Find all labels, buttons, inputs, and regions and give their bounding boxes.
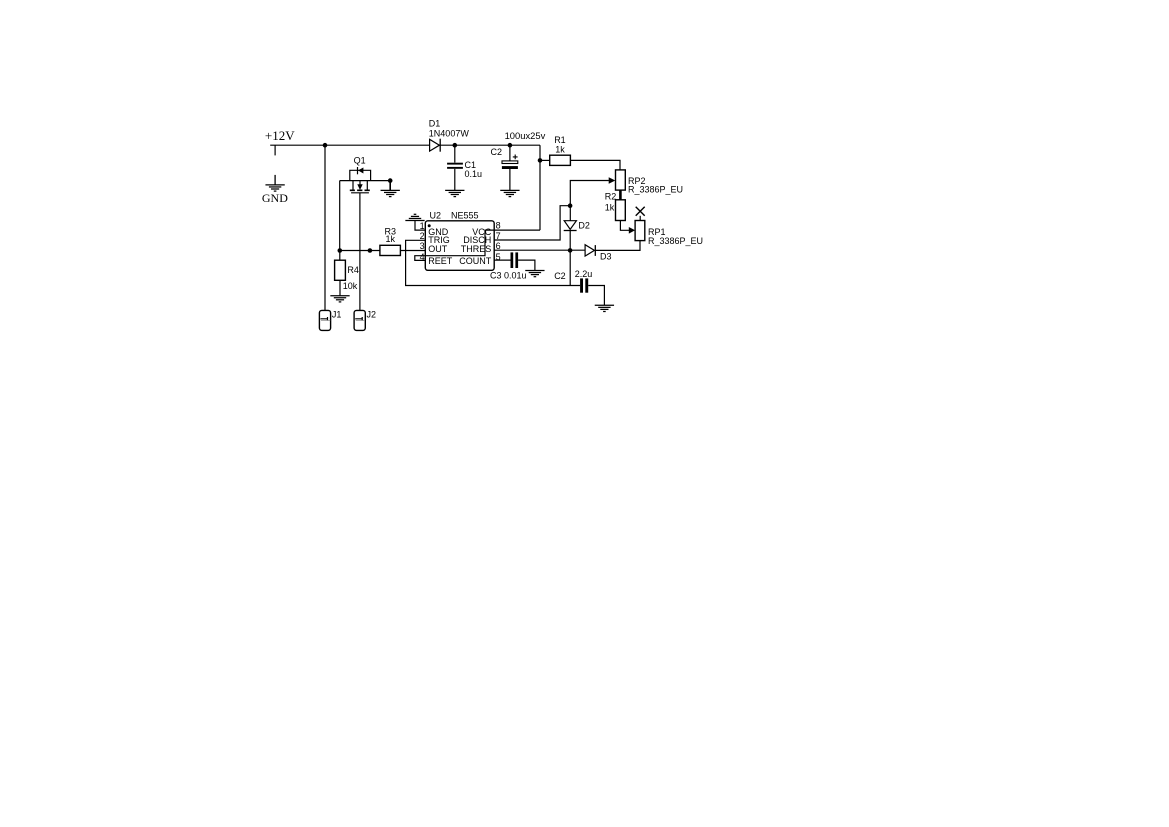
svg-text:D2: D2 (578, 221, 590, 231)
resistor R1 (550, 135, 571, 165)
svg-text:+12V: +12V (265, 128, 295, 143)
svg-text:OUT: OUT (428, 244, 448, 254)
wire Q1 source ground drop (389, 181, 391, 191)
svg-text:1k: 1k (555, 144, 565, 154)
wire D3 cathode to RP1 bottom (595, 241, 640, 251)
wire main +12V rail (270, 144, 540, 146)
connector J1 (319, 310, 341, 331)
svg-text:7: 7 (496, 231, 501, 241)
wire R1 to RP2 top (570, 160, 620, 170)
potentiometer RP1 (635, 221, 703, 246)
node junction R1 tap (538, 158, 543, 163)
connector J2 (354, 310, 376, 331)
resistor R4 (335, 260, 359, 291)
wire OUT pin3 to R3 (400, 250, 425, 252)
ground below R4 (330, 296, 349, 302)
svg-text:1N4007W: 1N4007W (429, 129, 470, 139)
wire rail to J1 (324, 145, 326, 310)
wire DISCH pin7 to junction (494, 206, 570, 240)
potentiometer RP2 (609, 170, 683, 195)
svg-text:10k: 10k (343, 281, 358, 291)
svg-text:0.1u: 0.1u (465, 169, 483, 179)
capacitor C2 100ux25v (polarized) (491, 130, 546, 190)
wire VCC pin8 to RESET pin4 (415, 230, 540, 260)
svg-text:2.2u: 2.2u (575, 269, 593, 279)
wire R4 to ground (339, 280, 341, 295)
resistor R3 (380, 226, 401, 255)
wire D2 cathode down to TRIG line (569, 231, 571, 286)
wire rail corner down to VCC (539, 145, 541, 230)
capacitor C3 0.01u (490, 252, 535, 280)
svg-text:U2: U2 (430, 210, 442, 220)
ground at C3 (525, 271, 544, 277)
svg-text:NE555: NE555 (451, 210, 479, 220)
svg-text:THRES: THRES (461, 244, 492, 254)
ground below C2 (500, 190, 519, 196)
node junction at +12V rail / J1 branch (323, 143, 328, 148)
svg-text:2: 2 (420, 231, 425, 241)
diode D3 (585, 245, 611, 262)
RP1 wiper arrow (629, 227, 635, 234)
wire Q1 drain down to OUT net (339, 181, 341, 251)
node junction rail / C2 (508, 143, 513, 148)
node junction on OUT net (368, 248, 373, 253)
ground below C2 2.2u (595, 305, 614, 311)
svg-text:COUNT: COUNT (459, 256, 491, 266)
wire R3 to OUT net junction (340, 250, 380, 252)
resistor R2 (605, 192, 626, 221)
svg-text:6: 6 (496, 241, 501, 251)
wire TRIG pin2 down and to C2 2.2u (406, 240, 580, 285)
svg-text:R4: R4 (347, 265, 359, 275)
svg-text:8: 8 (496, 220, 501, 230)
ground above U2 pin1 (inverted) (405, 214, 424, 220)
svg-text:R_3386P_EU: R_3386P_EU (628, 185, 683, 195)
wire to R1 (540, 159, 550, 161)
+12V pin stub (274, 145, 276, 155)
svg-text:Q1: Q1 (354, 155, 366, 165)
capacitor C1 (447, 145, 482, 190)
svg-text:R_3386P_EU: R_3386P_EU (648, 236, 703, 246)
diode D2 (564, 221, 590, 231)
node junction D1 cathode / C1 (453, 143, 458, 148)
diode D1 (429, 118, 470, 151)
wire Q1 gate down to J2 (359, 193, 361, 311)
node junction OUT / R4 / Q1 (338, 248, 343, 253)
wire RP2 wiper feed (570, 181, 609, 221)
ground flag GND (power flag below +12V) (262, 175, 288, 205)
svg-text:GND: GND (262, 191, 288, 205)
wire pin5 to C3 (494, 259, 510, 261)
capacitor C2 2.2u (554, 269, 604, 305)
svg-text:REET: REET (428, 256, 453, 266)
svg-text:J1: J1 (332, 310, 342, 320)
ground at Q1 source (381, 190, 400, 196)
svg-text:C2: C2 (491, 147, 503, 157)
wire OUT net to R4 (339, 251, 341, 261)
wire R2 to RP1 wiper (620, 221, 629, 231)
svg-text:D1: D1 (429, 118, 441, 128)
node junction DISCH / wiper net (568, 203, 573, 208)
svg-text:J2: J2 (367, 310, 377, 320)
svg-text:1k: 1k (605, 203, 615, 213)
op-amp U2 NE555 body (425, 210, 494, 270)
no-connect X on RP1 top (636, 207, 645, 221)
ground below C1 (445, 190, 464, 196)
svg-text:C3 0.01u: C3 0.01u (490, 271, 527, 281)
svg-text:C2: C2 (554, 271, 566, 281)
svg-text:D3: D3 (600, 252, 612, 262)
wire U2 pin1 to ground symbol (415, 221, 425, 231)
node junction Q1 source / ground (388, 178, 393, 183)
transistor Q1 (340, 155, 391, 192)
svg-text:100ux25v: 100ux25v (505, 130, 546, 141)
svg-text:1: 1 (420, 221, 425, 231)
thick link RP2 to R2 (619, 190, 622, 200)
wire THRES pin6 (494, 249, 585, 251)
svg-text:R2: R2 (605, 192, 617, 202)
svg-text:3: 3 (420, 241, 425, 251)
svg-text:1k: 1k (386, 234, 396, 244)
node junction THRES / D2 / D3 (568, 248, 573, 253)
